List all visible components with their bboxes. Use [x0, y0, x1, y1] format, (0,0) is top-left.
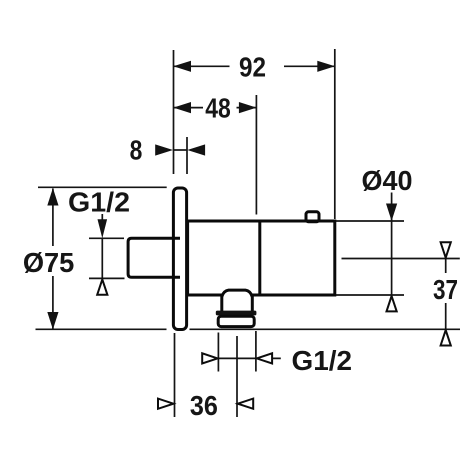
arrow 37 bottom (hollow, up)	[441, 330, 451, 345]
dimension G1/2 bottom line	[218, 357, 256, 359]
svg-text:Ø40: Ø40	[362, 165, 413, 196]
arrow O75 top	[47, 188, 58, 206]
extension line flange-left (top)	[173, 50, 175, 174]
extension line flange-left (bottom)	[174, 333, 176, 417]
extension line O75/37 bottom long right	[190, 328, 461, 330]
arrow 36 left (hollow, right)	[158, 399, 173, 409]
extension line O75/37 bottom long left	[36, 328, 167, 330]
svg-text:Ø75: Ø75	[23, 247, 75, 278]
dimension G1/2-connector stub	[101, 214, 103, 222]
svg-text:G1/2: G1/2	[292, 345, 353, 376]
extension line 48-right	[255, 95, 257, 215]
arrow 8 right (outside)	[187, 144, 205, 155]
arrow G1/2 bottom right (hollow, left)	[257, 353, 272, 363]
dimension 92 line	[174, 65, 230, 67]
svg-text:92: 92	[239, 51, 266, 82]
arrow G1/2-connector top (solid, down)	[98, 219, 108, 238]
dimension 37 line upper	[445, 259, 447, 274]
dimension 8 line	[174, 149, 188, 151]
arrow O75 bottom	[47, 312, 58, 330]
body bottom extension right	[336, 294, 404, 296]
arrow 36 right (hollow, left)	[238, 399, 253, 409]
dimension O75 line upper	[52, 189, 54, 247]
svg-text:36: 36	[190, 390, 218, 421]
connector G1/2 thread (rear)	[128, 238, 180, 277]
button on top	[306, 212, 319, 222]
extension line nut-left	[217, 333, 219, 372]
dimension O40 line	[391, 193, 393, 296]
hose-nut body	[218, 316, 254, 326]
spout dome opening (white fill)	[221, 290, 254, 298]
arrow 48 left	[173, 102, 191, 113]
centre line right	[342, 258, 460, 260]
body top extension right	[336, 220, 404, 222]
spout neck left	[220, 295, 223, 311]
arrow O40 bottom (hollow, up)	[387, 296, 397, 311]
arrow 8 left (outside)	[155, 144, 173, 155]
extension line 92-right	[334, 49, 336, 219]
spout dome curve	[222, 290, 252, 297]
svg-text:8: 8	[130, 135, 143, 166]
extension line nut-right	[255, 331, 257, 372]
svg-text:48: 48	[205, 93, 231, 124]
hose-nut top collar (filled)	[216, 311, 257, 316]
dimension G1/2-connector line through	[101, 238, 103, 278]
wall flange	[173, 188, 186, 330]
dimension O75 line lower	[52, 276, 54, 329]
arrow 37 top (hollow, down)	[441, 242, 451, 257]
extension line connector bottom	[89, 277, 125, 279]
body outline	[188, 221, 335, 295]
divider line body	[258, 221, 261, 295]
arrow 48 right	[239, 102, 257, 113]
svg-text:G1/2: G1/2	[68, 186, 130, 217]
extension line connector top	[89, 237, 124, 239]
arrow 92 left	[173, 61, 191, 72]
arrow G1/2-connector bottom (hollow, up)	[97, 279, 107, 294]
arrow O40 top (solid, down)	[386, 204, 397, 222]
dimension 48 line	[174, 107, 204, 109]
spout neck right	[251, 295, 254, 311]
centre line spout	[236, 336, 238, 417]
extension line flange-right (top)	[186, 137, 188, 174]
dimension 37 line lower	[445, 303, 447, 334]
arrow 92 right	[317, 61, 335, 72]
extension line O75 top	[38, 186, 167, 188]
svg-text:37: 37	[433, 274, 458, 305]
arrow G1/2 bottom left (hollow, right)	[202, 353, 217, 363]
